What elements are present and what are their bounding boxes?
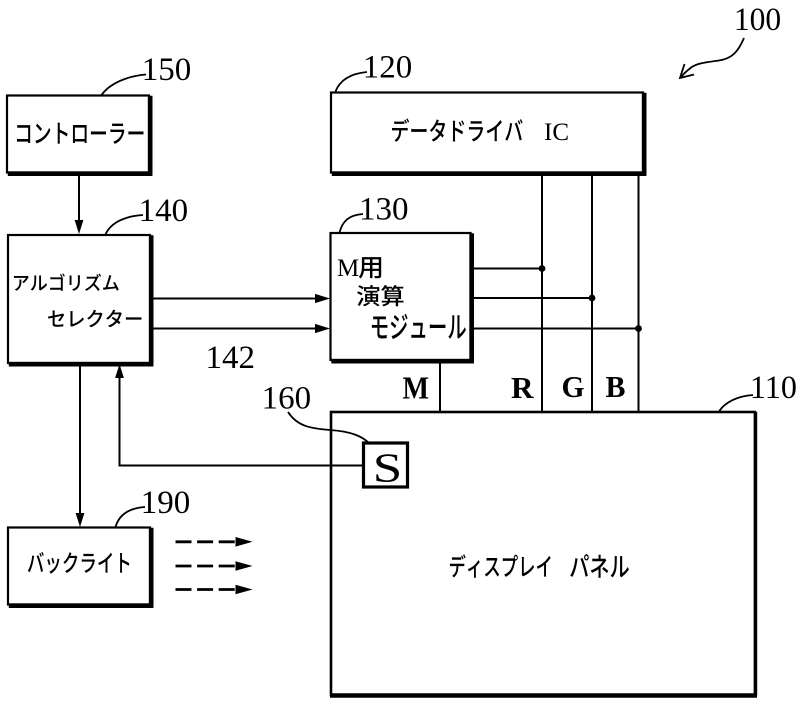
label 100 — [734, 2, 781, 38]
text 演算 — [357, 285, 403, 306]
svg-text:G: G — [562, 369, 585, 404]
dashed light arrow 3 from backlight — [176, 585, 253, 595]
wire R vertical from 120 to panel — [541, 173, 543, 413]
leader line 120 — [336, 72, 368, 92]
dashed light arrow 2 from backlight — [176, 561, 253, 571]
label M bold — [403, 370, 430, 406]
svg-text:B: B — [606, 369, 626, 404]
label 150 — [142, 52, 192, 88]
label 142 — [206, 340, 256, 376]
text ディスプレイ — [450, 554, 551, 578]
svg-text:100: 100 — [734, 2, 781, 38]
svg-text:IC: IC — [544, 119, 569, 146]
svg-text:110: 110 — [750, 370, 797, 406]
label B bold — [606, 369, 626, 404]
label 160 — [262, 381, 312, 417]
text セレクター — [48, 310, 141, 328]
svg-text:140: 140 — [139, 193, 189, 229]
label 110 — [750, 370, 797, 406]
leader line 160 — [288, 412, 370, 444]
svg-text:160: 160 — [262, 381, 312, 417]
svg-text:M: M — [403, 370, 430, 406]
leader line 190 — [116, 507, 146, 527]
leader squiggle arrow 100 — [680, 38, 744, 78]
leader line 140 — [106, 215, 144, 235]
dashed light arrow 1 from backlight — [176, 537, 253, 547]
wire arrow 140 to 130 lower — [150, 324, 330, 333]
label 190 — [141, 485, 191, 521]
wire 130 output to B with junction dot — [471, 325, 642, 332]
wire M vertical from 130 to panel — [439, 360, 441, 412]
block 140 algorithm selector box — [8, 235, 153, 365]
label 120 — [363, 50, 413, 86]
block 120 data driver IC box — [331, 93, 646, 175]
svg-text:M: M — [337, 255, 359, 282]
wire G vertical from 120 to panel — [591, 173, 593, 413]
wire B vertical from 120 to panel — [638, 173, 640, 413]
wire arrow 150 to 140 — [75, 173, 84, 234]
block 130 M calculation module box — [331, 233, 474, 362]
wire 130 output to R with junction dot — [471, 265, 546, 272]
block 110 display panel box — [330, 412, 757, 696]
sensor box S (160) — [364, 443, 408, 487]
label 130 — [359, 192, 409, 228]
label G bold — [562, 369, 585, 404]
label R bold — [511, 370, 534, 405]
wire arrow 140 to 130 upper — [150, 294, 330, 303]
label 140 — [139, 193, 189, 229]
wire 130 output to G with junction dot — [471, 295, 596, 302]
text データドライバ — [392, 118, 523, 142]
block 150 controller box — [7, 96, 152, 175]
wire arrow 140 to 190 — [76, 363, 85, 527]
text S — [373, 445, 403, 491]
block 190 backlight box — [8, 528, 153, 607]
svg-text:S: S — [373, 445, 403, 491]
svg-text:130: 130 — [359, 192, 409, 228]
svg-text:142: 142 — [206, 340, 256, 376]
text バックライト — [28, 552, 130, 574]
text パネル — [570, 554, 629, 578]
leader line 110 — [719, 395, 753, 412]
text M (of M用) — [337, 255, 359, 282]
text コントローラー — [17, 123, 143, 144]
wire S feedback horizontal — [120, 465, 364, 467]
text 用 — [359, 257, 381, 278]
svg-text:150: 150 — [142, 52, 192, 88]
text IC — [544, 119, 569, 146]
leader line 150 — [102, 75, 147, 96]
svg-text:190: 190 — [141, 485, 191, 521]
wire S feedback vertical arrow into 140 — [115, 364, 124, 467]
svg-text:R: R — [511, 370, 534, 405]
leader line 130 — [340, 214, 364, 233]
text モジュール — [372, 314, 466, 339]
svg-text:120: 120 — [363, 50, 413, 86]
text アルゴリズム — [14, 273, 119, 291]
